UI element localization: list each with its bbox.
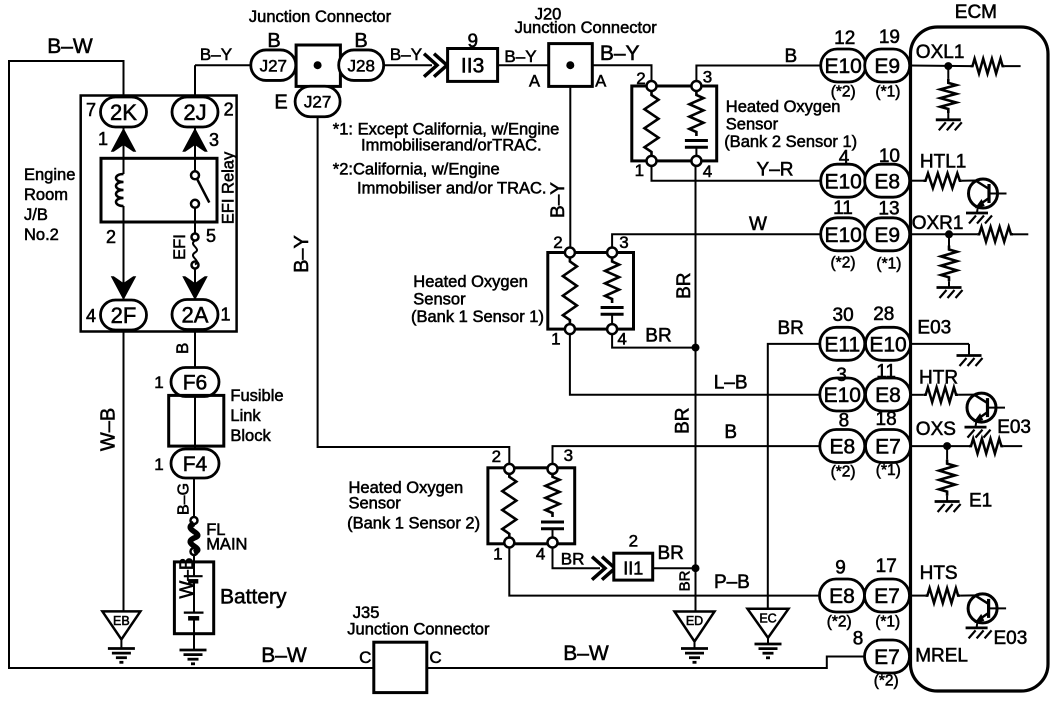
svg-text:1: 1 (154, 455, 163, 474)
svg-text:4: 4 (703, 162, 712, 181)
svg-text:E03: E03 (997, 417, 1031, 438)
svg-text:7: 7 (86, 100, 96, 120)
svg-text:BR: BR (777, 318, 803, 339)
svg-text:Sensor: Sensor (413, 291, 466, 309)
svg-text:W: W (749, 214, 767, 235)
svg-text:10: 10 (879, 146, 900, 167)
svg-text:A: A (529, 73, 540, 91)
svg-text:17: 17 (876, 556, 897, 577)
svg-text:Junction Connector: Junction Connector (249, 8, 392, 26)
svg-text:Junction Connector: Junction Connector (347, 621, 490, 639)
svg-text:ECM: ECM (955, 2, 997, 23)
svg-text:1: 1 (220, 305, 230, 325)
svg-text:Sensor: Sensor (726, 116, 779, 134)
svg-text:(*2): (*2) (831, 464, 856, 481)
svg-text:2: 2 (636, 69, 645, 88)
svg-text:F6: F6 (183, 372, 208, 395)
svg-text:BR: BR (657, 543, 683, 564)
svg-text:EFI: EFI (171, 234, 189, 260)
svg-text:Immobiliser and/or TRAC.: Immobiliser and/or TRAC. (357, 180, 547, 198)
svg-text:E8: E8 (829, 436, 855, 459)
svg-text:(*1): (*1) (876, 256, 901, 273)
svg-text:9: 9 (835, 558, 846, 579)
svg-text:2: 2 (492, 447, 501, 466)
svg-text:5: 5 (206, 226, 216, 246)
svg-text:E: E (274, 92, 287, 114)
svg-text:J27: J27 (260, 56, 287, 75)
svg-text:B: B (354, 30, 367, 52)
svg-text:12: 12 (834, 28, 855, 49)
svg-text:28: 28 (873, 304, 894, 325)
svg-text:Engine: Engine (24, 166, 75, 184)
svg-text:Battery: Battery (220, 586, 287, 609)
svg-text:4: 4 (86, 306, 96, 326)
svg-text:9: 9 (468, 31, 479, 52)
svg-text:E8: E8 (875, 384, 901, 407)
svg-text:19: 19 (879, 27, 900, 48)
svg-text:2K: 2K (110, 100, 137, 125)
svg-text:B–Y: B–Y (291, 235, 313, 273)
svg-text:E7: E7 (874, 646, 900, 669)
svg-text:Immobiliserand/orTRAC.: Immobiliserand/orTRAC. (361, 137, 542, 155)
svg-text:OXS: OXS (916, 419, 956, 440)
svg-text:Sensor: Sensor (349, 495, 402, 513)
svg-text:II1: II1 (623, 559, 643, 579)
svg-text:(Bank 1 Sensor 2): (Bank 1 Sensor 2) (347, 515, 480, 533)
svg-text:1: 1 (551, 330, 560, 349)
svg-text:F4: F4 (183, 453, 208, 476)
svg-text:B: B (267, 30, 280, 52)
svg-text:BR: BR (561, 550, 585, 569)
svg-text:OXL1: OXL1 (916, 42, 965, 63)
svg-text:A: A (595, 73, 606, 91)
svg-text:8: 8 (853, 629, 864, 650)
svg-text:HTR: HTR (919, 368, 958, 389)
svg-text:BR: BR (672, 407, 693, 433)
svg-text:1: 1 (635, 161, 644, 180)
svg-text:W–B: W–B (177, 557, 198, 598)
svg-text:2F: 2F (111, 303, 137, 328)
svg-text:B–W: B–W (563, 642, 609, 665)
svg-text:E8: E8 (874, 170, 900, 193)
svg-text:1: 1 (154, 373, 163, 392)
svg-text:(*2): (*2) (831, 84, 856, 101)
svg-text:No.2: No.2 (24, 226, 59, 244)
svg-text:3: 3 (619, 233, 628, 252)
svg-text:Y–R: Y–R (757, 160, 794, 181)
svg-text:EC: EC (759, 611, 776, 625)
svg-text:B: B (173, 343, 192, 354)
svg-text:Fusible: Fusible (230, 387, 283, 405)
svg-text:1: 1 (493, 545, 502, 564)
svg-text:8: 8 (839, 411, 850, 432)
svg-text:B–Y: B–Y (390, 45, 422, 64)
svg-text:(*1): (*1) (875, 614, 900, 631)
svg-text:2: 2 (629, 532, 638, 551)
svg-text:J28: J28 (347, 56, 374, 75)
svg-text:MAIN: MAIN (206, 536, 247, 554)
svg-text:J27: J27 (304, 93, 331, 112)
svg-text:(Bank 2 Sensor 1): (Bank 2 Sensor 1) (724, 133, 857, 151)
svg-text:30: 30 (833, 305, 854, 326)
svg-text:B–W: B–W (261, 644, 307, 667)
svg-text:3: 3 (209, 130, 219, 150)
svg-text:E7: E7 (875, 436, 901, 459)
svg-text:B: B (724, 422, 737, 443)
svg-text:BR: BR (674, 272, 695, 298)
svg-text:2: 2 (106, 227, 116, 247)
svg-text:3: 3 (836, 365, 847, 386)
svg-text:C: C (429, 648, 441, 667)
svg-text:(*1): (*1) (875, 84, 900, 101)
svg-text:(*2): (*2) (827, 614, 852, 631)
svg-text:Block: Block (230, 427, 271, 445)
svg-text:EB: EB (113, 614, 130, 628)
svg-text:4: 4 (617, 330, 626, 349)
svg-text:L–B: L–B (714, 373, 748, 394)
svg-text:E1: E1 (969, 491, 992, 512)
svg-text:BR: BR (676, 570, 693, 591)
svg-text:(Bank 1 Sensor 1): (Bank 1 Sensor 1) (411, 308, 544, 326)
svg-text:3: 3 (564, 446, 573, 465)
svg-text:E8: E8 (829, 585, 855, 608)
svg-text:(*2): (*2) (874, 673, 899, 690)
svg-text:11: 11 (876, 362, 896, 383)
svg-text:13: 13 (878, 199, 899, 220)
svg-text:J/B: J/B (24, 206, 48, 224)
svg-text:E7: E7 (874, 585, 900, 608)
svg-text:Heated Oxygen: Heated Oxygen (413, 273, 528, 291)
svg-text:E03: E03 (917, 318, 951, 339)
svg-text:B: B (784, 46, 797, 67)
svg-text:4: 4 (536, 545, 545, 564)
svg-text:OXR1: OXR1 (912, 213, 964, 234)
svg-text:BR: BR (645, 326, 671, 347)
svg-text:Room: Room (24, 186, 68, 204)
svg-text:W–B: W–B (98, 408, 120, 451)
svg-text:2A: 2A (182, 302, 209, 327)
svg-text:B–Y: B–Y (200, 45, 232, 64)
svg-text:E9: E9 (874, 55, 900, 78)
svg-text:2J: 2J (183, 100, 206, 125)
svg-text:EFI Relay: EFI Relay (219, 151, 237, 224)
svg-text:P–B: P–B (714, 572, 750, 593)
svg-text:E10: E10 (825, 170, 862, 193)
svg-text:11: 11 (833, 198, 853, 219)
svg-text:E10: E10 (825, 55, 862, 78)
svg-text:E10: E10 (869, 333, 906, 356)
svg-text:C: C (359, 648, 371, 667)
svg-text:2: 2 (553, 233, 562, 252)
svg-text:B–W: B–W (47, 35, 93, 58)
svg-text:3: 3 (703, 68, 712, 87)
svg-text:MREL: MREL (915, 646, 968, 667)
svg-text:4: 4 (839, 148, 850, 169)
svg-text:B–G: B–G (176, 483, 193, 515)
svg-text:E03: E03 (994, 628, 1028, 649)
svg-text:ED: ED (686, 614, 703, 628)
svg-text:J35: J35 (353, 604, 380, 622)
svg-text:*2:California, w/Engine: *2:California, w/Engine (333, 161, 500, 179)
svg-text:2: 2 (224, 100, 234, 120)
svg-text:B–Y: B–Y (548, 182, 569, 218)
svg-text:Heated Oxygen: Heated Oxygen (726, 98, 841, 116)
svg-text:18: 18 (876, 409, 897, 430)
svg-text:(*1): (*1) (876, 462, 901, 479)
svg-text:E10: E10 (825, 224, 862, 247)
svg-text:B–Y: B–Y (600, 42, 640, 65)
svg-text:E9: E9 (874, 224, 900, 247)
svg-text:1: 1 (98, 129, 108, 149)
svg-text:HTL1: HTL1 (920, 152, 966, 173)
svg-text:HTS: HTS (920, 563, 958, 584)
svg-text:E10: E10 (824, 384, 861, 407)
svg-text:B–Y: B–Y (504, 47, 536, 66)
svg-text:Junction Connector: Junction Connector (515, 19, 658, 37)
svg-text:II3: II3 (461, 55, 484, 78)
svg-text:E11: E11 (824, 333, 860, 356)
svg-text:Link: Link (230, 407, 261, 425)
svg-text:(*2): (*2) (831, 255, 856, 272)
